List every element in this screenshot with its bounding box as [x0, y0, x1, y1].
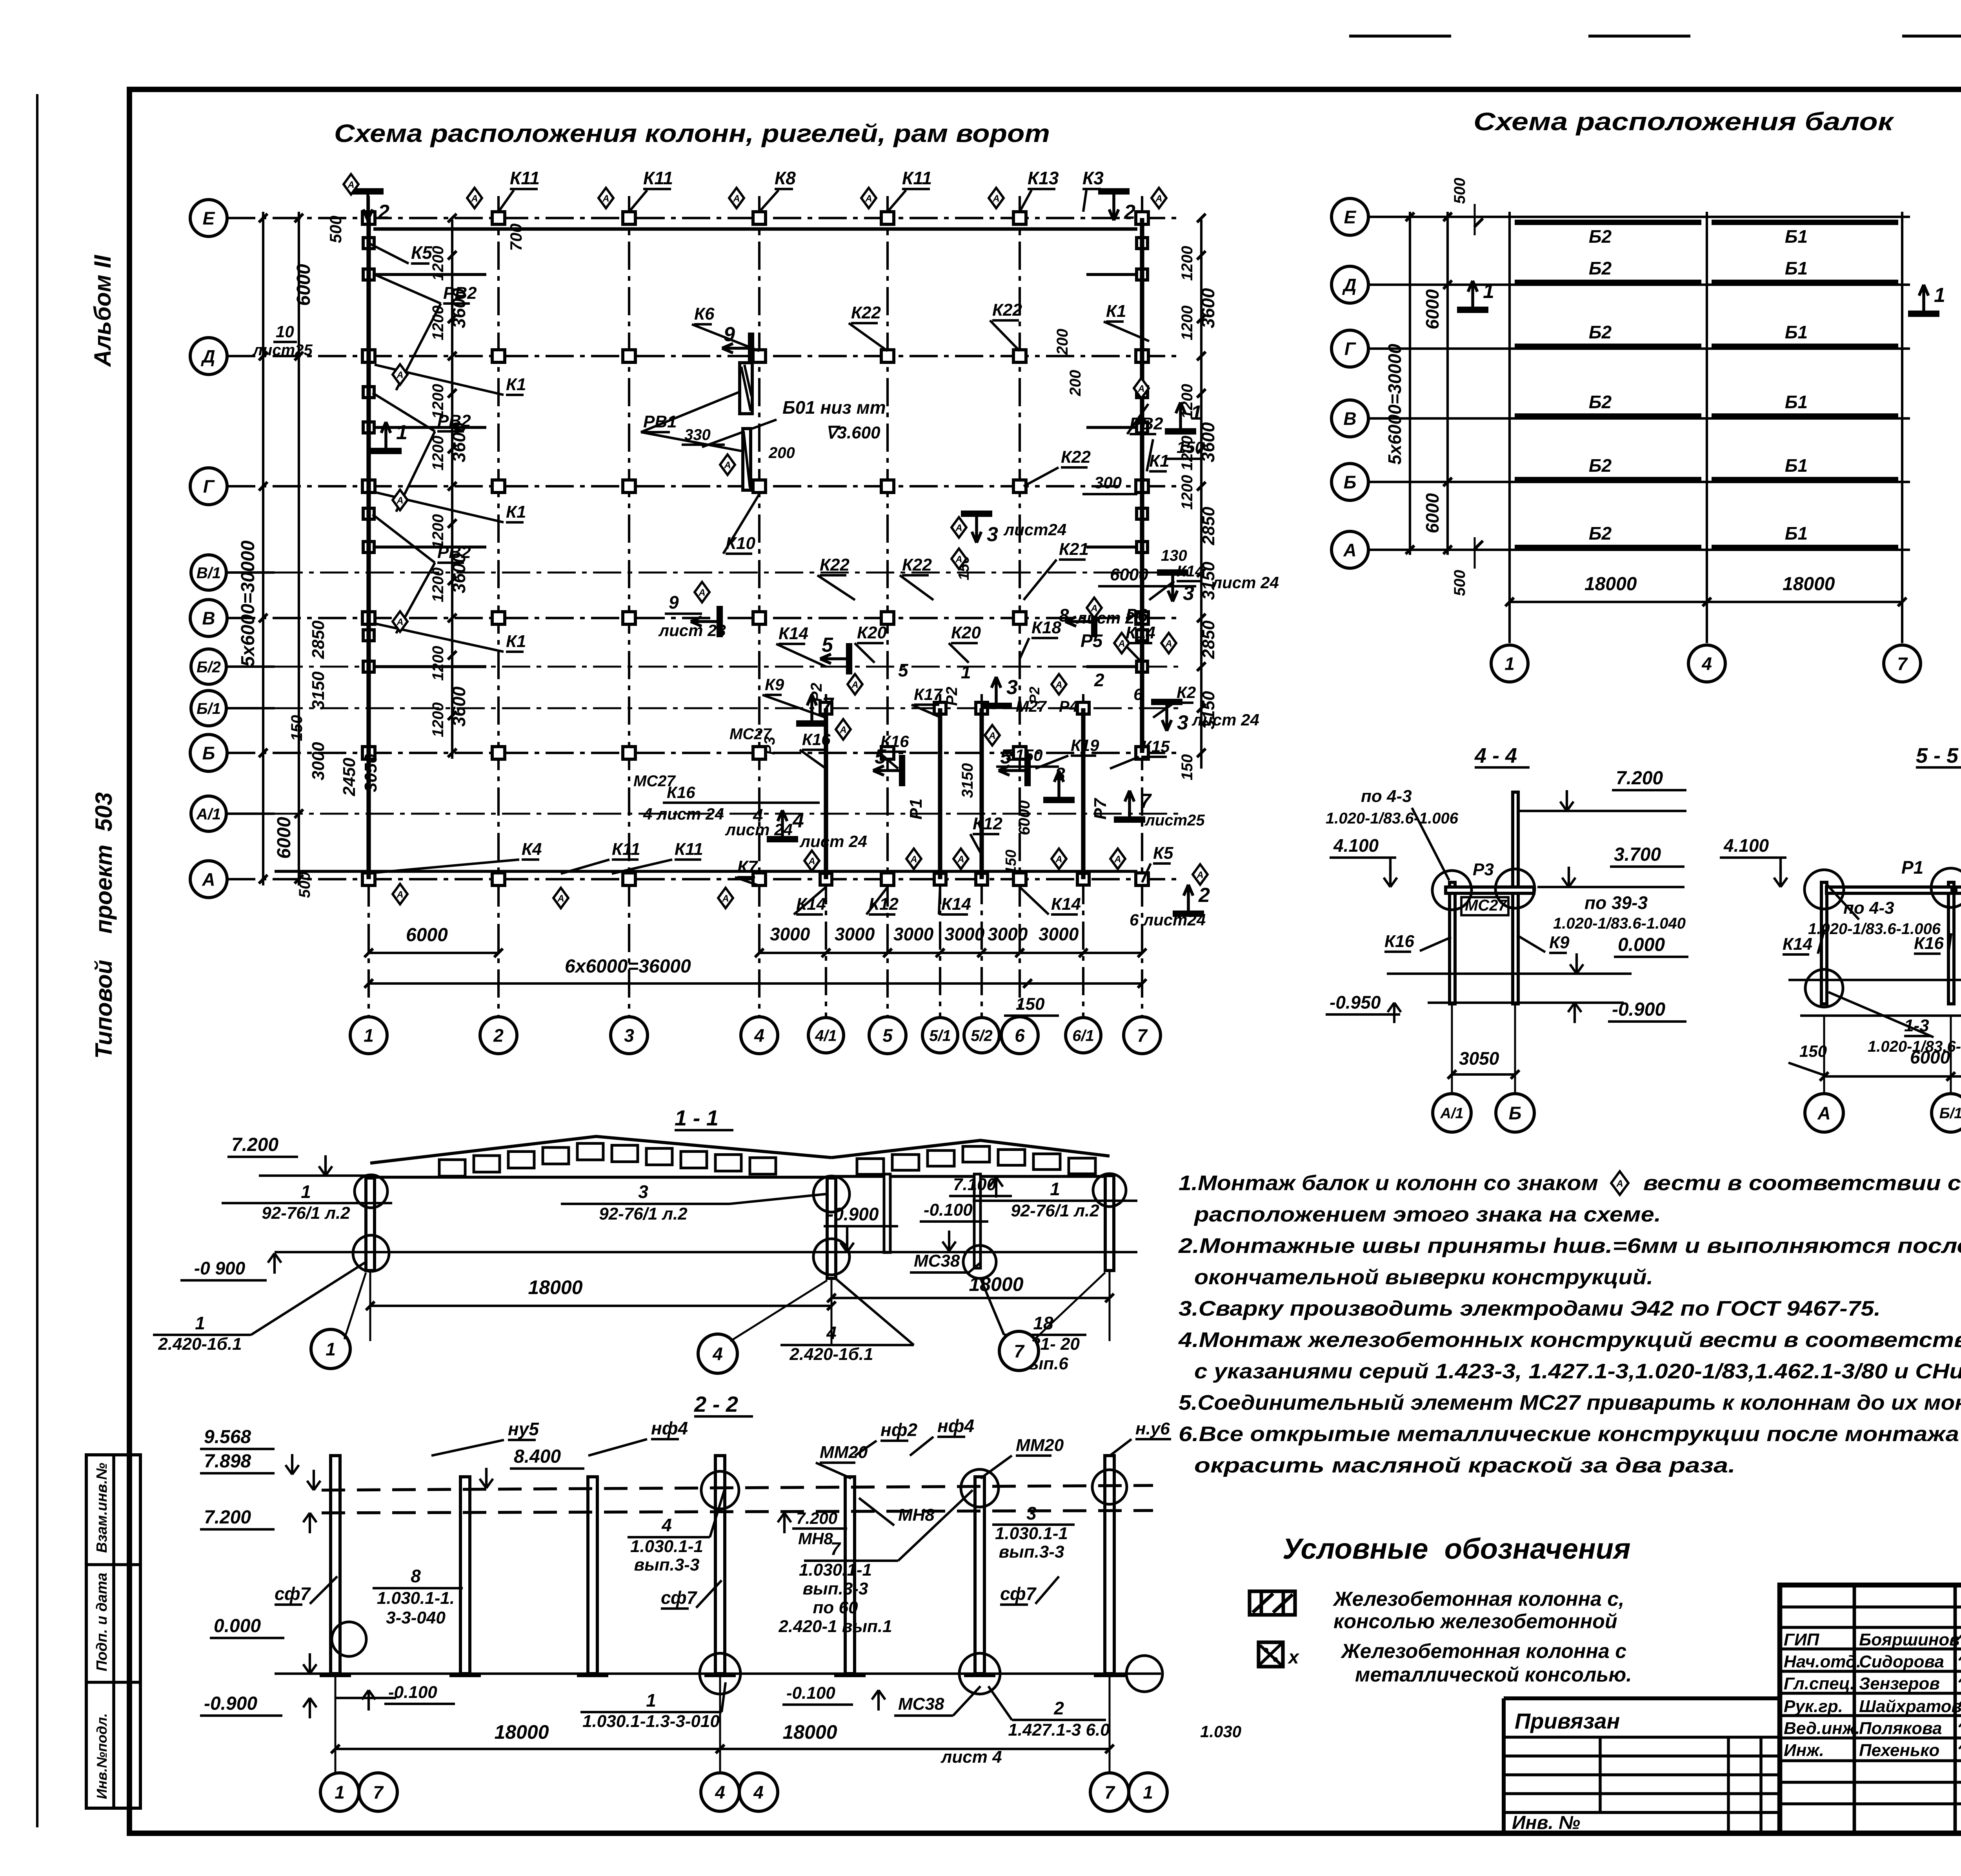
- svg-text:3: 3: [1026, 1503, 1037, 1523]
- svg-text:1: 1: [364, 1025, 374, 1046]
- svg-text:А: А: [347, 180, 354, 190]
- svg-text:К21: К21: [1059, 540, 1089, 559]
- svg-text:18000: 18000: [782, 1721, 837, 1743]
- svg-text:Схема расположения балок: Схема расположения балок: [1473, 107, 1895, 136]
- svg-text:4.Монтаж железобетонных констр: 4.Монтаж железобетонных конструкций вест…: [1178, 1328, 1961, 1352]
- svg-text:В: В: [202, 608, 215, 629]
- svg-text:А: А: [839, 725, 846, 735]
- svg-text:Д: Д: [1342, 275, 1356, 295]
- svg-text:3: 3: [1177, 711, 1188, 734]
- svg-text:3: 3: [638, 1182, 648, 1202]
- svg-text:3000: 3000: [309, 742, 328, 780]
- svg-text:4: 4: [712, 1344, 723, 1364]
- svg-text:Р2: Р2: [1026, 687, 1042, 704]
- svg-text:4: 4: [754, 1025, 764, 1046]
- svg-text:150: 150: [1177, 438, 1204, 456]
- svg-text:0.000: 0.000: [214, 1616, 261, 1636]
- svg-text:7.200: 7.200: [204, 1507, 251, 1528]
- svg-text:Привязан: Привязан: [1515, 1709, 1620, 1733]
- svg-text:А: А: [1817, 1103, 1830, 1123]
- svg-text:Альбом II: Альбом II: [89, 254, 116, 367]
- svg-text:4.100: 4.100: [1723, 835, 1769, 856]
- svg-text:-0.900: -0.900: [204, 1693, 257, 1714]
- svg-text:4: 4: [715, 1782, 725, 1803]
- svg-text:2.420-1б.1: 2.420-1б.1: [789, 1345, 873, 1364]
- svg-text:2.420-1б.1: 2.420-1б.1: [158, 1334, 242, 1354]
- svg-text:по 39-3: по 39-3: [1584, 893, 1648, 913]
- svg-text:металлической консолью.: металлической консолью.: [1355, 1663, 1632, 1686]
- svg-text:1200: 1200: [429, 702, 447, 737]
- svg-text:К22: К22: [820, 555, 850, 574]
- svg-text:Б1: Б1: [1785, 226, 1808, 247]
- svg-text:Б/2: Б/2: [196, 658, 221, 676]
- svg-text:сф7: сф7: [275, 1583, 311, 1604]
- svg-text:-0.950: -0.950: [1330, 992, 1381, 1013]
- svg-text:1.030.1-1.3-3-010: 1.030.1-1.3-3-010: [582, 1712, 720, 1731]
- svg-text:К5: К5: [411, 242, 433, 263]
- svg-text:А: А: [957, 854, 964, 865]
- svg-text:7.200: 7.200: [1616, 768, 1663, 789]
- svg-text:н.у6: н.у6: [1135, 1419, 1170, 1438]
- svg-text:1: 1: [195, 1313, 205, 1333]
- svg-text:4: 4: [792, 809, 804, 832]
- svg-text:4 лист 24: 4 лист 24: [643, 805, 724, 823]
- svg-text:6000: 6000: [1110, 565, 1148, 584]
- svg-text:МС38: МС38: [898, 1694, 944, 1714]
- svg-text:А: А: [1055, 854, 1062, 865]
- svg-text:1: 1: [396, 421, 407, 444]
- svg-text:18000: 18000: [494, 1721, 549, 1743]
- svg-text:5/1: 5/1: [929, 1027, 951, 1044]
- svg-text:6х6000=36000: 6х6000=36000: [565, 956, 691, 977]
- svg-text:4: 4: [661, 1515, 672, 1535]
- svg-text:1: 1: [1143, 1782, 1153, 1803]
- svg-text:4 - 4: 4 - 4: [1474, 744, 1517, 767]
- svg-text:К2: К2: [1177, 683, 1196, 702]
- svg-text:3050: 3050: [1459, 1048, 1499, 1069]
- svg-text:А: А: [1137, 384, 1144, 394]
- svg-text:5 - 5: 5 - 5: [1916, 744, 1959, 767]
- svg-text:2850: 2850: [1199, 620, 1218, 659]
- svg-text:1 - 1: 1 - 1: [675, 1105, 719, 1130]
- svg-text:А: А: [1118, 638, 1125, 649]
- svg-text:7.200: 7.200: [796, 1509, 837, 1527]
- svg-text:1: 1: [1504, 654, 1515, 674]
- svg-text:Рук.гр.: Рук.гр.: [1784, 1697, 1843, 1716]
- svg-text:4: 4: [826, 1323, 837, 1343]
- svg-text:Инв. №: Инв. №: [1512, 1812, 1580, 1833]
- svg-text:К12: К12: [973, 814, 1003, 833]
- svg-text:МС38: МС38: [914, 1251, 960, 1271]
- svg-text:Б2: Б2: [1589, 392, 1612, 412]
- svg-text:1.030: 1.030: [1200, 1722, 1241, 1741]
- svg-text:1: 1: [326, 1339, 336, 1360]
- svg-text:А: А: [955, 523, 962, 533]
- svg-text:А: А: [1155, 193, 1162, 204]
- svg-text:К14: К14: [1177, 563, 1204, 580]
- svg-text:4.100: 4.100: [1333, 835, 1379, 856]
- svg-text:Подп. и дата: Подп. и дата: [94, 1572, 110, 1671]
- svg-text:4: 4: [1701, 654, 1712, 674]
- svg-text:х: х: [1287, 1647, 1300, 1668]
- svg-text:К18: К18: [1031, 618, 1062, 637]
- svg-text:К9: К9: [765, 675, 784, 694]
- svg-text:500: 500: [326, 216, 345, 243]
- svg-text:К16: К16: [1914, 934, 1944, 953]
- svg-text:Б2: Б2: [1589, 455, 1612, 476]
- svg-text:3.Сварку производить электрода: 3.Сварку производить электродами Э42 по …: [1179, 1297, 1881, 1320]
- svg-text:А: А: [724, 460, 731, 471]
- svg-text:5.Соединительный элемент МС27: 5.Соединительный элемент МС27 приварить …: [1179, 1391, 1961, 1414]
- svg-text:-0.900: -0.900: [828, 1204, 879, 1224]
- svg-text:-0 900: -0 900: [194, 1258, 246, 1278]
- svg-text:3600: 3600: [449, 686, 469, 727]
- svg-text:Б: Б: [1344, 472, 1357, 493]
- svg-text:Схема расположения колонн, р: Схема расположения колонн, ригелей, рам …: [334, 119, 1050, 147]
- svg-text:А: А: [955, 554, 962, 565]
- svg-text:18000: 18000: [969, 1273, 1023, 1295]
- svg-text:-0.900: -0.900: [1612, 999, 1665, 1020]
- svg-text:Р7: Р7: [1091, 798, 1110, 820]
- svg-text:7: 7: [373, 1782, 384, 1803]
- svg-text:150: 150: [1799, 1042, 1827, 1060]
- svg-text:Инж.: Инж.: [1784, 1741, 1824, 1760]
- svg-text:К6: К6: [694, 304, 715, 324]
- svg-text:2: 2: [1094, 670, 1104, 690]
- svg-text:нф4: нф4: [937, 1416, 974, 1436]
- svg-text:200: 200: [1054, 329, 1071, 355]
- svg-text:6000: 6000: [293, 264, 314, 306]
- svg-text:К14: К14: [779, 624, 808, 643]
- svg-text:330: 330: [684, 426, 711, 444]
- svg-text:Е: Е: [1344, 207, 1357, 227]
- svg-text:ММ20: ММ20: [820, 1443, 868, 1462]
- svg-text:К14: К14: [941, 894, 971, 914]
- svg-text:Зензеров: Зензеров: [1859, 1674, 1940, 1693]
- svg-text:7: 7: [1014, 1341, 1025, 1362]
- svg-text:Р3: Р3: [762, 737, 778, 755]
- svg-text:2: 2: [378, 201, 389, 224]
- svg-text:500: 500: [296, 872, 313, 898]
- svg-text:2: 2: [1198, 884, 1210, 907]
- svg-text:лист 24: лист 24: [1211, 573, 1279, 592]
- svg-text:с указаниями серий 1.423-3, 1.: с указаниями серий 1.423-3, 1.427.1-3,1.…: [1194, 1360, 1961, 1383]
- svg-text:1.Монтаж балок и колонн со зна: 1.Монтаж балок и колонн со знаком: [1179, 1171, 1598, 1195]
- svg-text:Р3: Р3: [1473, 860, 1494, 879]
- svg-text:1200: 1200: [429, 567, 447, 602]
- svg-text:А: А: [1055, 680, 1062, 690]
- svg-text:700: 700: [507, 224, 525, 251]
- svg-text:А/1: А/1: [196, 805, 221, 823]
- svg-text:92-76/1 л.2: 92-76/1 л.2: [599, 1204, 688, 1223]
- svg-text:5: 5: [882, 1025, 893, 1046]
- svg-text:нф2: нф2: [880, 1420, 917, 1440]
- svg-text:А: А: [396, 889, 403, 900]
- svg-text:3000: 3000: [835, 924, 875, 944]
- svg-text:Р2: Р2: [943, 687, 960, 706]
- svg-text:Б1: Б1: [1785, 392, 1808, 412]
- svg-text:К9: К9: [1549, 933, 1570, 952]
- svg-text:9: 9: [669, 592, 679, 613]
- svg-text:К11: К11: [510, 168, 540, 188]
- svg-text:Б2: Б2: [1589, 322, 1612, 342]
- svg-text:8.400: 8.400: [514, 1446, 561, 1467]
- svg-text:К5: К5: [1153, 843, 1173, 863]
- svg-text:3.700: 3.700: [1614, 844, 1661, 865]
- svg-text:3600: 3600: [1198, 288, 1218, 328]
- svg-text:ну5: ну5: [508, 1419, 539, 1439]
- svg-text:Условные обозначения: Условные обозначения: [1282, 1532, 1631, 1565]
- svg-text:по 60: по 60: [813, 1598, 858, 1617]
- svg-text:3: 3: [1006, 676, 1018, 699]
- svg-text:по 4-3: по 4-3: [1361, 787, 1412, 806]
- svg-text:3000: 3000: [893, 924, 934, 944]
- svg-text:А: А: [910, 854, 917, 865]
- svg-text:лист 24: лист 24: [1192, 711, 1259, 729]
- svg-text:Р4: Р4: [1059, 698, 1078, 715]
- svg-text:10: 10: [276, 322, 294, 341]
- svg-text:А: А: [202, 869, 215, 890]
- svg-text:Б1: Б1: [1785, 258, 1808, 278]
- svg-text:6000: 6000: [406, 925, 448, 945]
- svg-text:А: А: [1114, 854, 1121, 865]
- svg-text:Б1: Б1: [1785, 322, 1808, 342]
- svg-text:К1: К1: [506, 632, 526, 651]
- svg-text:Типовой проект 503: Типовой проект 503: [91, 792, 117, 1059]
- svg-text:1: 1: [646, 1690, 656, 1711]
- svg-text:6: 6: [1015, 1025, 1025, 1046]
- svg-text:К22: К22: [1061, 447, 1091, 467]
- svg-text:-0.100: -0.100: [924, 1200, 973, 1220]
- svg-text:нф4: нф4: [651, 1418, 688, 1438]
- svg-text:лист24: лист24: [1003, 520, 1066, 539]
- svg-text:150: 150: [1003, 850, 1019, 874]
- svg-text:3-3-040: 3-3-040: [386, 1608, 446, 1627]
- svg-text:Р1: Р1: [906, 798, 926, 820]
- svg-text:А: А: [1196, 870, 1203, 880]
- svg-text:К11: К11: [902, 168, 932, 188]
- svg-text:2.420-1 вып.1: 2.420-1 вып.1: [778, 1617, 892, 1636]
- svg-text:Сидорова: Сидорова: [1859, 1652, 1944, 1671]
- svg-text:К14: К14: [1783, 934, 1812, 954]
- svg-text:А/1: А/1: [1440, 1105, 1463, 1122]
- svg-text:1: 1: [1934, 284, 1945, 307]
- svg-text:3000: 3000: [770, 924, 810, 944]
- svg-text:1200: 1200: [1179, 246, 1196, 281]
- svg-text:К14: К14: [1051, 894, 1081, 914]
- svg-text:Р6: Р6: [1126, 605, 1148, 625]
- svg-text:Железобетонная колонна с: Железобетонная колонна с: [1340, 1640, 1626, 1663]
- svg-text:1: 1: [961, 662, 971, 682]
- svg-text:А: А: [865, 193, 872, 204]
- svg-text:1200: 1200: [429, 646, 447, 681]
- svg-text:РВ2: РВ2: [437, 411, 471, 431]
- svg-text:3150: 3150: [1006, 746, 1042, 764]
- svg-text:3000: 3000: [944, 924, 985, 944]
- svg-text:4/1: 4/1: [815, 1027, 837, 1044]
- svg-text:Д: Д: [200, 346, 215, 367]
- svg-text:92-76/1 л.2: 92-76/1 л.2: [262, 1203, 350, 1223]
- svg-text:1: 1: [301, 1182, 311, 1202]
- svg-text:Железобетонная колонна с,: Железобетонная колонна с,: [1332, 1588, 1624, 1611]
- svg-text:К1: К1: [506, 502, 526, 522]
- svg-text:Г: Г: [203, 476, 215, 497]
- svg-text:К22: К22: [992, 300, 1022, 320]
- svg-text:А: А: [808, 856, 815, 867]
- svg-text:А: А: [396, 370, 403, 380]
- svg-text:А: А: [733, 193, 740, 204]
- svg-text:К17: К17: [914, 685, 943, 703]
- svg-text:7: 7: [1140, 790, 1152, 813]
- svg-text:К1: К1: [1106, 302, 1126, 321]
- svg-text:В: В: [1343, 409, 1356, 429]
- svg-text:К1: К1: [1149, 451, 1170, 471]
- svg-text:Бояршинов: Бояршинов: [1859, 1630, 1960, 1649]
- svg-text:К20: К20: [951, 623, 981, 642]
- svg-text:150: 150: [1016, 994, 1045, 1014]
- svg-text:А: А: [1343, 540, 1356, 560]
- svg-text:6 лист24: 6 лист24: [1130, 911, 1206, 929]
- svg-text:К16: К16: [880, 732, 909, 751]
- svg-text:6/1: 6/1: [1072, 1027, 1094, 1044]
- svg-text:1.030.1-1: 1.030.1-1: [630, 1537, 703, 1556]
- svg-text:1200: 1200: [1179, 305, 1196, 340]
- svg-text:3000: 3000: [988, 924, 1028, 944]
- svg-text:Нач.отд.: Нач.отд.: [1784, 1652, 1861, 1671]
- svg-text:К16: К16: [1384, 932, 1415, 951]
- svg-text:500: 500: [1451, 178, 1468, 204]
- svg-text:3000: 3000: [1039, 924, 1079, 944]
- svg-text:6000: 6000: [1910, 1047, 1950, 1067]
- svg-text:1200: 1200: [1179, 475, 1196, 510]
- svg-text:1.020-1/83.6-1.040: 1.020-1/83.6-1.040: [1553, 915, 1686, 932]
- svg-text:консолью железобетонной: консолью железобетонной: [1333, 1610, 1617, 1633]
- svg-text:Г: Г: [1344, 339, 1356, 359]
- svg-text:Б01 низ мт: Б01 низ мт: [782, 397, 886, 418]
- svg-text:3050: 3050: [361, 754, 380, 792]
- svg-text:200: 200: [768, 444, 795, 462]
- svg-text:2.Монтажные швы приняты hшв.=6: 2.Монтажные швы приняты hшв.=6мм и выпол…: [1178, 1234, 1961, 1258]
- svg-text:3150: 3150: [959, 763, 976, 798]
- svg-text:лист25: лист25: [1144, 812, 1205, 829]
- svg-text:8: 8: [411, 1566, 421, 1586]
- svg-text:вести в соответствии с: вести в соответствии с: [1643, 1171, 1961, 1195]
- svg-text:МН8: МН8: [798, 1529, 833, 1548]
- svg-text:2: 2: [493, 1025, 504, 1046]
- svg-text:К13: К13: [1028, 168, 1059, 188]
- svg-text:лист 4: лист 4: [940, 1747, 1002, 1767]
- svg-text:1: 1: [1483, 280, 1494, 303]
- svg-text:Е: Е: [203, 208, 215, 229]
- svg-text:6000: 6000: [1422, 493, 1443, 533]
- svg-text:Б1: Б1: [1785, 455, 1808, 476]
- svg-text:1.030.1-1.: 1.030.1-1.: [377, 1589, 455, 1608]
- svg-text:А: А: [1090, 603, 1097, 614]
- svg-text:2850: 2850: [309, 620, 328, 659]
- svg-text:Б1: Б1: [1785, 523, 1808, 544]
- svg-text:лист 24: лист 24: [725, 820, 793, 839]
- svg-text:К22: К22: [851, 303, 881, 322]
- svg-text:3: 3: [987, 523, 998, 546]
- svg-text:А: А: [1616, 1178, 1623, 1189]
- svg-text:К16: К16: [802, 730, 831, 749]
- svg-text:Взам.инв.№: Взам.инв.№: [94, 1463, 110, 1553]
- svg-text:7: 7: [1897, 654, 1908, 674]
- svg-text:вып.3-3: вып.3-3: [999, 1542, 1064, 1562]
- svg-text:Б/1: Б/1: [196, 700, 221, 717]
- svg-text:300: 300: [1094, 473, 1122, 492]
- svg-text:К3: К3: [1082, 168, 1104, 188]
- svg-text:Вед.инж.: Вед.инж.: [1784, 1719, 1860, 1738]
- svg-text:1.020-1/83.6-1.006: 1.020-1/83.6-1.006: [1326, 810, 1459, 827]
- svg-text:2: 2: [1124, 201, 1135, 224]
- svg-text:150: 150: [288, 715, 306, 741]
- svg-text:200: 200: [1067, 370, 1084, 396]
- svg-text:3: 3: [624, 1025, 634, 1046]
- svg-text:В/1: В/1: [196, 564, 221, 582]
- svg-text:7: 7: [1137, 1025, 1148, 1046]
- svg-text:Пехенько: Пехенько: [1859, 1741, 1939, 1760]
- svg-text:-0.100: -0.100: [388, 1683, 437, 1702]
- svg-text:К14: К14: [796, 894, 826, 914]
- svg-text:6000: 6000: [274, 817, 295, 859]
- svg-text:К8: К8: [775, 168, 796, 188]
- svg-text:К7: К7: [737, 857, 759, 876]
- svg-text:Б2: Б2: [1589, 226, 1612, 247]
- svg-text:5: 5: [822, 634, 833, 656]
- svg-text:0.000: 0.000: [1618, 934, 1665, 955]
- svg-text:18000: 18000: [1783, 574, 1835, 594]
- svg-text:А: А: [396, 495, 403, 506]
- svg-text:6000: 6000: [1016, 800, 1033, 835]
- svg-text:К4: К4: [522, 840, 542, 859]
- svg-text:К20: К20: [857, 623, 887, 642]
- svg-text:1.030.1-1: 1.030.1-1: [995, 1524, 1068, 1543]
- svg-text:1: 1: [335, 1782, 345, 1803]
- svg-text:1: 1: [1050, 1179, 1060, 1199]
- svg-text:А: А: [988, 731, 995, 741]
- svg-text:∇3.600: ∇3.600: [826, 423, 880, 442]
- svg-text:К14: К14: [1126, 623, 1155, 642]
- svg-text:лист 23: лист 23: [658, 621, 726, 640]
- svg-text:2450: 2450: [340, 758, 359, 796]
- svg-text:1.030.1-1: 1.030.1-1: [799, 1560, 872, 1580]
- svg-text:1.427.1-3 6.0: 1.427.1-3 6.0: [1008, 1720, 1110, 1740]
- svg-text:Р1: Р1: [1901, 857, 1923, 878]
- svg-text:сф7: сф7: [661, 1587, 698, 1608]
- svg-text:5х6000=30000: 5х6000=30000: [238, 540, 258, 667]
- svg-text:Гл.спец.: Гл.спец.: [1784, 1674, 1855, 1693]
- svg-text:К1: К1: [506, 375, 526, 394]
- svg-text:К11: К11: [675, 840, 703, 859]
- svg-text:Б2: Б2: [1589, 258, 1612, 278]
- svg-text:7: 7: [1104, 1782, 1115, 1803]
- svg-text:130: 130: [1161, 547, 1187, 564]
- svg-text:Полякова: Полякова: [1859, 1719, 1942, 1738]
- svg-text:лист 24: лист 24: [799, 832, 867, 851]
- svg-text:МН8: МН8: [898, 1505, 935, 1525]
- svg-text:окрасить масляной краской за д: окрасить масляной краской за два раза.: [1194, 1454, 1735, 1477]
- svg-text:А: А: [557, 893, 564, 904]
- svg-text:А: А: [602, 193, 609, 204]
- svg-text:А: А: [471, 193, 478, 204]
- svg-text:Р5: Р5: [1081, 631, 1103, 651]
- svg-text:Б: Б: [1509, 1103, 1522, 1123]
- svg-text:7.200: 7.200: [231, 1134, 278, 1155]
- svg-text:7.898: 7.898: [204, 1451, 251, 1472]
- svg-text:3150: 3150: [309, 671, 328, 710]
- svg-text:расположением этого знака на с: расположением этого знака на схеме.: [1193, 1203, 1661, 1226]
